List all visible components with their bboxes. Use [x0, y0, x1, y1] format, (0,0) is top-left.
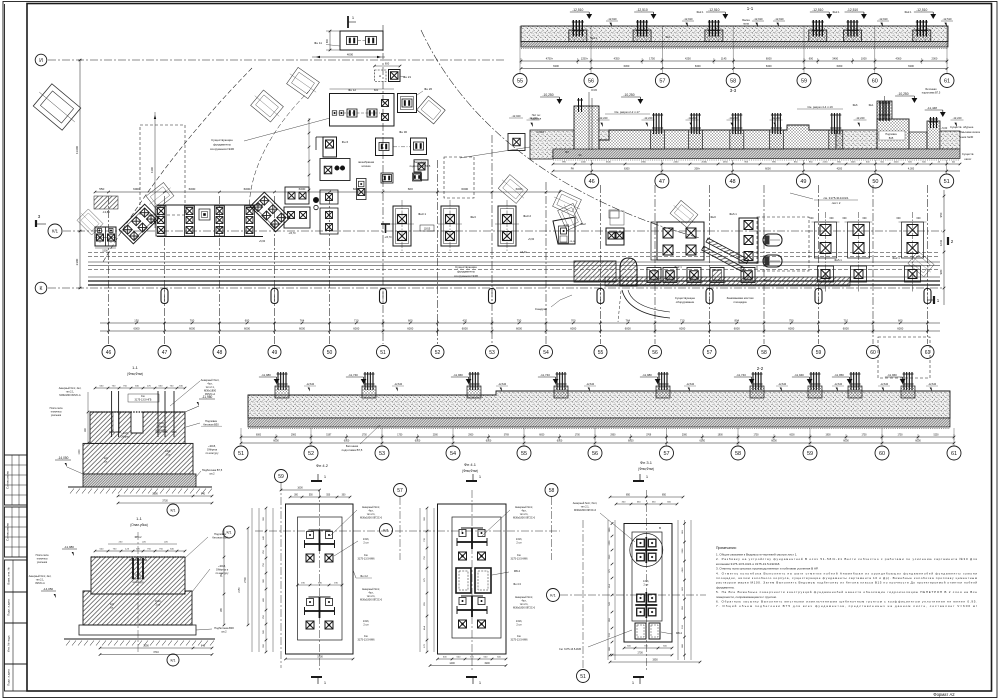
svg-text:К/1: К/1 — [383, 528, 388, 532]
svg-text:2700: 2700 — [244, 577, 247, 583]
foundation pads near K1 mid — [284, 207, 310, 228]
svg-text:50: 50 — [327, 350, 333, 356]
svg-text:2-2: 2-2 — [757, 366, 764, 371]
svg-text:4200: 4200 — [837, 168, 843, 171]
dashed ghost rect left — [140, 125, 185, 215]
svg-text:3710: 3710 — [153, 651, 159, 654]
svg-text:H: H — [379, 74, 381, 78]
svg-text:-13,383: -13,383 — [536, 131, 545, 134]
svg-text:1750: 1750 — [397, 435, 403, 437]
svg-text:РА: РА — [571, 168, 575, 171]
Fn4.2 grid circle 59 — [275, 470, 288, 483]
svg-text:-11,980: -11,980 — [261, 373, 271, 377]
axis K1 horizontal — [63, 230, 942, 232]
small foundation boxes row — [647, 268, 661, 283]
svg-text:ФнЗ: ФнЗ — [710, 215, 716, 219]
svg-text:-11,980: -11,980 — [64, 545, 74, 549]
svg-text:49: 49 — [800, 179, 806, 185]
plan grid circles row — [102, 346, 115, 359]
svg-text:-12,910: -12,910 — [607, 17, 617, 21]
svg-text:Обёртка: Обёртка — [157, 427, 167, 429]
left margin column lines — [5, 455, 28, 505]
svg-text:804: 804 — [735, 319, 740, 323]
svg-text:1750: 1750 — [753, 435, 759, 437]
section 3-3 left stipple block — [530, 130, 574, 159]
detail B K1 circles — [223, 526, 235, 538]
svg-text:-12,240: -12,240 — [688, 116, 697, 120]
section 3-3 base strip — [553, 149, 960, 159]
svg-text:6000: 6000 — [299, 327, 305, 331]
svg-text:Фн 30: Фн 30 — [399, 130, 407, 134]
svg-text:оборудование: оборудование — [676, 300, 695, 304]
svg-text:130: 130 — [134, 319, 139, 323]
svg-text:6300: 6300 — [624, 64, 630, 68]
svg-text:1750: 1750 — [897, 435, 903, 437]
svg-text:см.2: см.2 — [209, 472, 215, 476]
Fn4.1 axes — [471, 490, 473, 670]
svg-text:Фн2: Фн2 — [580, 222, 586, 226]
svg-text:4,300: 4,300 — [908, 168, 915, 171]
svg-text:Существующие: Существующие — [211, 138, 233, 142]
svg-text:1900: 1900 — [718, 435, 724, 437]
svg-text:600: 600 — [897, 217, 902, 220]
detail B upper block — [91, 557, 185, 594]
svg-text:700: 700 — [190, 319, 195, 323]
svg-text:6300: 6300 — [624, 168, 630, 171]
svg-text:Фн 4.1: Фн 4.1 — [464, 462, 477, 467]
large dashed arc left — [103, 68, 252, 262]
Fn8 rect left mid — [323, 137, 337, 157]
svg-text:61: 61 — [944, 78, 950, 84]
Fn4.2 top dims — [290, 496, 350, 498]
svg-text:-12,640: -12,640 — [498, 383, 507, 386]
svg-text:Фн 21: Фн 21 — [403, 75, 411, 79]
svg-text:2 шт: 2 шт — [363, 624, 369, 627]
svg-text:фундаменты: фундаменты — [457, 270, 475, 274]
svg-text:поверхности, соприкасающиеся с: поверхности, соприкасающиеся с грунтом. — [716, 595, 777, 599]
svg-text:(За): (За) — [221, 573, 223, 577]
svg-text:1645: 1645 — [851, 162, 857, 164]
svg-text:710: 710 — [354, 319, 359, 323]
Fn3.1 51 axis — [582, 520, 584, 668]
svg-text:фундаменты: фундаменты — [213, 143, 231, 147]
column x520 squares — [508, 134, 525, 151]
section 3-3 stipple segment — [836, 130, 877, 149]
section 2-2 strip — [248, 391, 950, 418]
svg-text:Фн 3.1: Фн 3.1 — [640, 460, 653, 465]
svg-text:6000: 6000 — [353, 327, 359, 331]
svg-text:6000: 6000 — [570, 327, 576, 331]
svg-text:3175-13.5-КМ6: 3175-13.5-КМ6 — [510, 558, 528, 561]
svg-text:58: 58 — [761, 350, 767, 356]
svg-text:Подливка: Подливка — [205, 419, 217, 423]
svg-text:6000: 6000 — [299, 187, 306, 191]
svg-text:бетоном В30: бетоном В30 — [203, 423, 219, 427]
svg-text:2 шт: 2 шт — [363, 542, 369, 545]
svg-text:46: 46 — [589, 179, 595, 185]
svg-text:-13,84: -13,84 — [102, 210, 110, 214]
svg-text:-12,640: -12,640 — [778, 383, 787, 386]
svg-text:Фн 26: Фн 26 — [424, 87, 432, 91]
svg-text:-11,448: -11,448 — [927, 106, 937, 110]
svg-text:2150: 2150 — [239, 587, 241, 593]
svg-text:-12,510: -12,510 — [812, 8, 823, 12]
svg-text:710: 710 — [680, 319, 685, 323]
plan left vertical dim line — [79, 60, 81, 288]
svg-text:1. Общие указания к Ведомости: 1. Общие указания к Ведомости чертежей с… — [716, 553, 797, 557]
svg-text:капот: капот — [964, 157, 972, 161]
Fn3.1 cut flags — [633, 480, 644, 482]
svg-text:6000: 6000 — [843, 327, 849, 331]
svg-text:53: 53 — [489, 350, 495, 356]
svg-text:-12,640: -12,640 — [394, 383, 403, 386]
double square x617 — [610, 211, 624, 225]
svg-text:56: 56 — [592, 451, 598, 457]
svg-text:60: 60 — [872, 78, 878, 84]
svg-text:В: В — [659, 526, 661, 530]
svg-text:-23,70: -23,70 — [288, 232, 296, 235]
rotated foundation diamond 1 — [119, 204, 159, 244]
foundation with 3 pads — [739, 218, 758, 263]
Fn4.2 axis — [255, 530, 560, 532]
svg-text:6000: 6000 — [699, 440, 705, 443]
svg-text:3. Отметку пола цеховых произ: 3. Отметку пола цеховых производственные… — [716, 567, 818, 571]
svg-text:См. 3175-13.5-КМ6: См. 3175-13.5-КМ6 — [559, 648, 582, 651]
section 3-3 main strip — [599, 125, 836, 149]
svg-text:Подп. и дата: Подп. и дата — [7, 599, 11, 616]
Fn4.2 bottom dims — [286, 658, 354, 660]
svg-text:М36х1800 09Г2С-6: М36х1800 09Г2С-6 — [513, 517, 536, 520]
equipment capsules — [763, 234, 782, 246]
svg-text:710: 710 — [844, 319, 849, 323]
svg-text:1700: 1700 — [637, 652, 643, 655]
right pad strips 59 60 61 — [825, 212, 827, 292]
svg-text:усиления: усиления — [37, 561, 48, 564]
Fn12 big rect — [330, 94, 395, 127]
svg-text:3175-13.5-НГБ: 3175-13.5-НГБ — [135, 399, 152, 402]
Fn4.2 anchor group top — [307, 532, 314, 539]
left margin table Подп. и дата — [5, 592, 28, 623]
svg-text:764: 764 — [626, 319, 631, 323]
svg-text:6000: 6000 — [516, 187, 523, 191]
svg-text:3175-13.5-КМ6: 3175-13.5-КМ6 — [357, 558, 375, 561]
svg-text:Фн2.1: Фн2.1 — [904, 10, 912, 14]
svg-text:52: 52 — [308, 451, 314, 457]
section 2-2 base — [248, 418, 950, 427]
svg-text:1000: 1000 — [79, 449, 81, 455]
axis I circle — [35, 54, 47, 66]
detail A K1 circle — [167, 504, 179, 516]
svg-text:6300: 6300 — [837, 64, 843, 68]
svg-text:-12,640: -12,640 — [834, 383, 843, 386]
svg-text:М36х1800 09Г2С-6: М36х1800 09Г2С-6 — [513, 607, 536, 610]
svg-text:Анкерный болт,: Анкерный болт, — [201, 378, 220, 382]
svg-text:61: 61 — [925, 350, 931, 356]
svg-text:6300: 6300 — [908, 64, 914, 68]
svg-text:-12,640: -12,640 — [586, 383, 595, 386]
svg-text:К/1: К/1 — [170, 508, 175, 512]
svg-text:6000: 6000 — [256, 435, 262, 437]
svg-text:208+: 208+ — [694, 168, 700, 171]
svg-text:6000: 6000 — [843, 440, 849, 443]
svg-text:-12,040: -12,040 — [512, 114, 521, 118]
svg-text:К/1: К/1 — [52, 229, 59, 234]
svg-text:(Опал.убка): (Опал.убка) — [130, 523, 148, 527]
crane rail lines — [88, 252, 940, 254]
rotated diamond small top — [417, 96, 445, 124]
svg-text:М36х1800 09Г2С-6: М36х1800 09Г2С-6 — [360, 517, 383, 520]
svg-text:-12,640: -12,640 — [928, 383, 937, 386]
svg-text:-12,510: -12,510 — [572, 8, 583, 12]
svg-text:600: 600 — [917, 217, 922, 220]
svg-text:55: 55 — [598, 350, 604, 356]
axis K1 circle — [48, 224, 62, 238]
Fn3.1 left dims — [607, 520, 609, 660]
section 3-3 dims — [553, 163, 960, 165]
svg-text:Обёртка: Обёртка — [121, 437, 131, 439]
svg-text:по контуру: по контуру — [132, 582, 144, 584]
svg-text:М36х1800: М36х1800 — [204, 389, 217, 393]
svg-text:3175-13.5-КМ6: 3175-13.5-КМ6 — [510, 639, 528, 642]
svg-text:51: 51 — [238, 451, 244, 457]
svg-text:6000: 6000 — [344, 440, 350, 443]
detail A upper block — [90, 412, 185, 443]
svg-text:1500: 1500 — [894, 162, 900, 164]
svg-text:+5,60: +5,60 — [259, 240, 266, 243]
svg-text:-10,250: -10,250 — [623, 93, 634, 97]
svg-text:1400: 1400 — [449, 662, 455, 665]
hatched rail beam strip right — [605, 277, 850, 286]
svg-text:1950: 1950 — [652, 659, 658, 662]
svg-text:3175-13.5-КМ6: 3175-13.5-КМ6 — [357, 639, 375, 642]
svg-text:600: 600 — [374, 88, 379, 92]
Fn3.1 bottom dims — [624, 647, 672, 649]
Fn4.2 inner small dims — [298, 584, 343, 586]
svg-text:-11,743: -11,743 — [540, 373, 550, 377]
svg-text:51: 51 — [944, 179, 950, 185]
svg-text:6000: 6000 — [915, 440, 921, 443]
svg-text:-12,510: -12,510 — [847, 8, 858, 12]
svg-text:764: 764 — [300, 319, 305, 323]
section 3-3 notch stipple — [599, 130, 609, 140]
svg-text:2 шт: 2 шт — [516, 624, 522, 627]
svg-text:Существ.: Существ. — [962, 152, 974, 156]
svg-text:59: 59 — [807, 451, 813, 457]
svg-text:-11,960: -11,960 — [887, 373, 897, 377]
svg-text:52: 52 — [435, 350, 441, 356]
svg-text:Фн3.2: Фн3.2 — [523, 214, 531, 218]
svg-text:М36х1800 09Г2С-6: М36х1800 09Г2С-6 — [360, 599, 383, 602]
axis I horizontal — [48, 59, 505, 61]
svg-text:1750: 1750 — [362, 435, 368, 437]
svg-text:газонобразная: газонобразная — [358, 161, 375, 164]
svg-text:фундамента.: фундамента. — [716, 585, 735, 589]
svg-text:7. Общий объем подбетонки В75: 7. Общий объем подбетонки В75 для всех ф… — [716, 604, 977, 608]
svg-text:Подливка: Подливка — [885, 133, 897, 136]
svg-text:550: 550 — [99, 187, 104, 191]
svg-text:2000: 2000 — [682, 435, 688, 437]
svg-text:Фн 11: Фн 11 — [314, 41, 322, 45]
svg-text:4. Отметку колонбока Выполн: 4. Отметку колонбока Выполнять на шаге о… — [716, 571, 977, 575]
svg-text:МЛ: МЛ — [565, 151, 569, 154]
big foundation group right — [657, 222, 704, 260]
svg-text:46: 46 — [106, 350, 112, 356]
svg-text:55: 55 — [521, 451, 527, 457]
svg-text:11815: 11815 — [424, 228, 431, 231]
detail A lower block — [83, 443, 193, 474]
section 3-3 bolts on strip — [651, 130, 665, 149]
svg-text:2900: 2900 — [291, 435, 297, 437]
svg-text:5197: 5197 — [326, 435, 332, 437]
Fn30 squares mid — [376, 138, 394, 156]
Fn4.1 outer rect — [438, 504, 507, 654]
svg-text:6000: 6000 — [788, 327, 794, 331]
svg-text:Инв. № подл.: Инв. № подл. — [7, 635, 11, 653]
svg-text:640: 640 — [201, 493, 206, 496]
svg-text:Подбетонка В30: Подбетонка В30 — [214, 626, 234, 630]
svg-text:Фн2.1: Фн2.1 — [763, 278, 771, 282]
detail A anchor bolts — [111, 391, 113, 437]
section 3-3 chimney — [574, 106, 599, 150]
svg-text:-10,250: -10,250 — [542, 93, 553, 97]
svg-text:56: 56 — [588, 78, 594, 84]
svg-text:-12,510: -12,510 — [942, 17, 952, 21]
svg-text:-13,45: -13,45 — [216, 226, 224, 229]
detail B ground line — [64, 638, 215, 640]
svg-text:Фн2.1: Фн2.1 — [696, 10, 704, 14]
svg-text:2х0,: 2х0, — [110, 604, 115, 606]
detail A slot2 — [113, 412, 119, 432]
svg-text:41А: 41А — [423, 626, 426, 630]
svg-text:лист 2: лист 2 — [832, 201, 841, 205]
svg-text:2000: 2000 — [433, 435, 439, 437]
detail B top dims — [95, 550, 185, 552]
svg-text:Обёртка и: Обёртка и — [216, 568, 229, 572]
svg-text:54: 54 — [543, 350, 549, 356]
section 3-3 grid circles — [591, 160, 593, 174]
svg-text:58: 58 — [730, 78, 736, 84]
svg-text:13х0,: 13х0, — [165, 451, 171, 453]
svg-text:Фн2.1: Фн2.1 — [832, 10, 840, 14]
svg-text:6000: 6000 — [415, 440, 421, 443]
Fn4.1 grid circles — [394, 484, 407, 497]
svg-text:подполья: подполья — [531, 118, 542, 121]
svg-text:Балка: Балка — [742, 18, 750, 22]
svg-text:6000: 6000 — [189, 327, 195, 331]
svg-text:-12,240: -12,240 — [729, 116, 738, 120]
svg-text:6000: 6000 — [133, 187, 140, 191]
Fn4.2 cut flag bottom — [311, 676, 322, 678]
svg-text:1250+: 1250+ — [581, 57, 589, 61]
svg-text:09Г2С-А: 09Г2С-А — [205, 392, 215, 396]
svg-text:57: 57 — [397, 488, 403, 494]
section 3-3 chimney bolts — [588, 92, 590, 150]
svg-text:980: 980 — [939, 269, 943, 274]
foundation pad Fn8 row — [285, 187, 309, 204]
svg-text:41А: 41А — [608, 584, 611, 588]
svg-text:1600: 1600 — [297, 487, 303, 490]
svg-text:4000: 4000 — [347, 53, 354, 57]
section 1-1 subbase strip — [521, 42, 948, 48]
Fn26 square — [398, 94, 417, 113]
svg-text:3400: 3400 — [832, 57, 838, 61]
detail B base band — [79, 625, 196, 635]
left margin table Подп. и дата — [5, 664, 28, 691]
left margin table Взам. инв. № — [5, 560, 28, 592]
svg-text:В15: В15 — [889, 137, 894, 140]
svg-text:см. 3175-313-КЖ1: см. 3175-313-КЖ1 — [823, 196, 848, 200]
svg-text:-11,940: -11,940 — [794, 373, 804, 377]
svg-text:420: 420 — [463, 319, 468, 323]
svg-text:(Фнм,Фнм): (Фнм,Фнм) — [462, 469, 478, 473]
svg-text:600: 600 — [863, 217, 868, 220]
svg-text:-12,240: -12,240 — [772, 116, 781, 120]
svg-text:Фн2.1: Фн2.1 — [892, 256, 900, 260]
svg-text:-12,640: -12,640 — [686, 383, 695, 386]
svg-text:-11,960: -11,960 — [453, 373, 463, 377]
svg-text:Согласовано: Согласовано — [6, 523, 10, 541]
svg-text:по контуру: по контуру — [206, 452, 220, 455]
svg-text:Фнб.1: Фнб.1 — [834, 258, 842, 262]
svg-text:-12,510: -12,510 — [708, 8, 719, 12]
detail B bottom dims — [100, 647, 193, 649]
svg-text:-11,740: -11,740 — [348, 373, 358, 377]
svg-text:тип 2.1,: тип 2.1, — [205, 385, 214, 389]
svg-text:600: 600 — [843, 217, 848, 220]
svg-text:3090: 3090 — [152, 493, 158, 496]
svg-text:6000: 6000 — [407, 327, 413, 331]
svg-text:58: 58 — [735, 451, 741, 457]
svg-text:⌐30х5,: ⌐30х5, — [218, 564, 226, 568]
svg-text:Фн 6: Фн 6 — [342, 140, 349, 144]
svg-text:600: 600 — [830, 217, 835, 220]
dashed ghost rect over grid row — [878, 337, 930, 378]
svg-text:6000: 6000 — [789, 435, 795, 437]
svg-text:Подп. и дата: Подп. и дата — [7, 669, 11, 686]
axis K circle — [35, 282, 47, 294]
svg-text:6. Обратную засыпку Выполнять: 6. Обратную засыпку Выполнять местными и… — [716, 600, 977, 604]
stepped rect right — [414, 160, 428, 180]
svg-text:6000: 6000 — [628, 440, 634, 443]
svg-text:Обёртка: Обёртка — [207, 448, 218, 452]
svg-text:См. разрез 2-2 л.17: См. разрез 2-2 л.17 — [614, 110, 640, 114]
Fn3.1 big circle — [630, 534, 663, 567]
detail A left vert dim — [87, 392, 89, 443]
svg-text:850: 850 — [662, 494, 667, 497]
Fn4.1 bottom dims — [438, 658, 507, 660]
curved track arcs bottom — [622, 290, 670, 318]
rotated foundation diamond 2 — [250, 192, 290, 232]
detail A top dims — [95, 387, 185, 389]
svg-text:700: 700 — [571, 319, 576, 323]
svg-text:Фн1: Фн1 — [869, 103, 874, 107]
svg-text:-12,240: -12,240 — [856, 116, 865, 120]
plan vertical grid lines — [108, 196, 110, 344]
svg-text:6000: 6000 — [244, 327, 250, 331]
svg-text:1900: 1900 — [317, 656, 323, 659]
large dashed arc right — [421, 30, 700, 238]
svg-text:2900: 2900 — [610, 435, 616, 437]
svg-text:4шт,: 4шт, — [207, 382, 213, 386]
svg-text:600: 600 — [408, 187, 413, 191]
svg-text:-10,250: -10,250 — [897, 92, 908, 96]
svg-text:6000: 6000 — [625, 327, 631, 331]
svg-text:⌐30х5,: ⌐30х5, — [208, 444, 216, 448]
svg-text:6000: 6000 — [771, 440, 777, 443]
svg-text:Фн3: Фн3 — [470, 215, 476, 219]
Fn3.1 bottom blocks — [635, 623, 646, 639]
dashed ghost rect right — [757, 217, 809, 271]
